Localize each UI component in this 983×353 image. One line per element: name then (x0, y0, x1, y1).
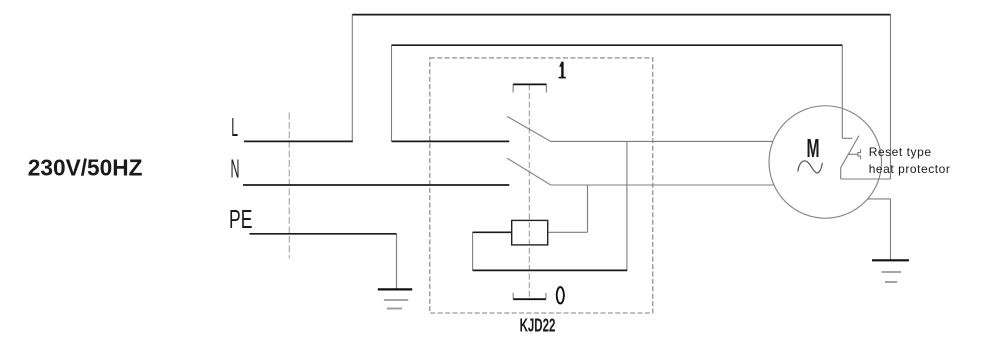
svg-text:KJD22: KJD22 (520, 316, 556, 336)
svg-text:L: L (231, 112, 238, 142)
svg-text:N: N (231, 153, 240, 183)
svg-text:PE: PE (229, 204, 252, 234)
svg-text:M: M (807, 133, 820, 163)
svg-text:Reset type: Reset type (869, 145, 932, 159)
svg-text:230V/50HZ: 230V/50HZ (28, 155, 143, 181)
svg-text:heat protector: heat protector (869, 162, 951, 176)
